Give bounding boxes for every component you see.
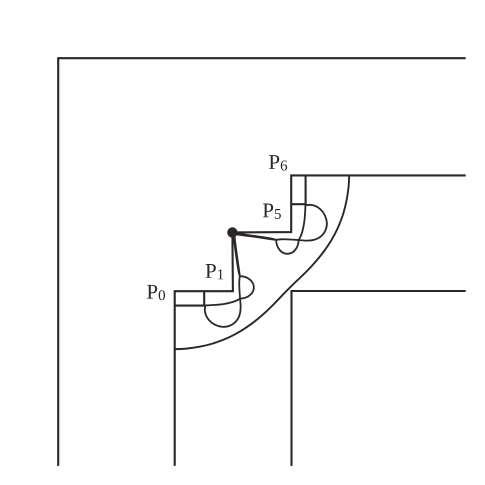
wall bottom-right step	[292, 291, 466, 466]
label P0	[147, 285, 165, 300]
post L near P1	[175, 291, 204, 305]
wall polyline through vertex (from right edge through dot down to bottom)	[175, 175, 466, 466]
spiral path loop around P5 post	[235, 205, 327, 254]
spiral path loop around P1 post (mirror across diagonal)	[205, 235, 254, 327]
wall top-left corner (outer boundary)	[58, 58, 466, 466]
vertex dot	[227, 227, 237, 237]
big sweep arc	[175, 175, 349, 349]
label P5	[263, 204, 281, 219]
label P6	[269, 155, 287, 170]
label P1	[206, 264, 224, 279]
post L near P5	[291, 175, 305, 204]
